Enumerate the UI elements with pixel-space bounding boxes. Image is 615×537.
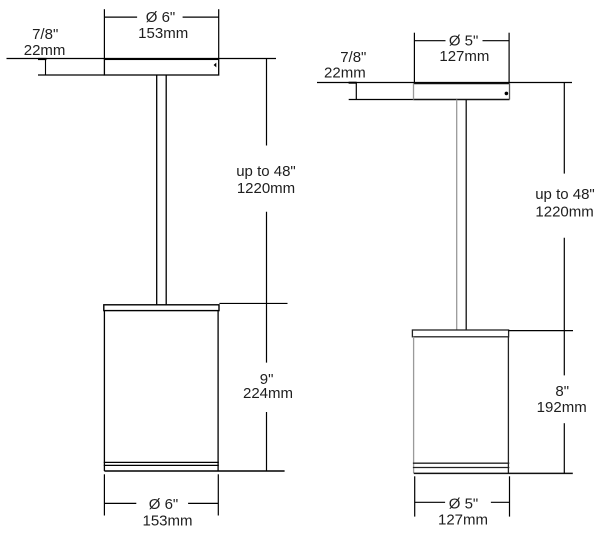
svg-text:22mm: 22mm <box>24 42 66 59</box>
svg-text:22mm: 22mm <box>324 65 366 82</box>
svg-text:7/8": 7/8" <box>32 26 58 43</box>
svg-text:127mm: 127mm <box>439 48 489 65</box>
top dimension line seg 1 (right fixture) <box>414 40 445 42</box>
cap-top extension line (left fixture) <box>219 302 287 304</box>
48in/9in chain dimension line seg 1 (left fixture) <box>266 59 268 146</box>
svg-text:Ø 5": Ø 5" <box>449 32 479 49</box>
svg-text:224mm: 224mm <box>243 385 293 402</box>
top dimension line seg 2 (left fixture) <box>183 16 219 18</box>
svg-text:8": 8" <box>555 383 569 400</box>
canopy right edge (right) <box>509 84 511 100</box>
top dim extension line left (left fixture) <box>103 9 105 59</box>
body right edge (left fixture) <box>217 311 219 471</box>
top dimension line seg 1 (left fixture) <box>104 16 137 18</box>
top dimension line seg 2 (right fixture) <box>483 40 510 42</box>
svg-text:153mm: 153mm <box>142 513 192 530</box>
top dim extension line right (right fixture) <box>508 33 510 83</box>
canopy left edge (right, grey) <box>413 84 415 100</box>
bottom dimension line seg 2 (right fixture) <box>491 501 510 503</box>
body left edge (left fixture) <box>103 311 105 471</box>
svg-text:1220mm: 1220mm <box>237 180 295 197</box>
7/8" bottom extension line (left) <box>38 74 104 76</box>
cylinder cap (right fixture) <box>412 330 508 337</box>
svg-text:192mm: 192mm <box>537 399 587 416</box>
7/8" bottom extension line (right) <box>349 99 414 101</box>
chain dimension line seg 3 (right fixture) <box>563 423 565 473</box>
svg-text:Ø 5": Ø 5" <box>449 496 479 513</box>
svg-text:1220mm: 1220mm <box>535 204 593 221</box>
svg-text:up to 48": up to 48" <box>236 163 296 180</box>
body bottom line + right extension (right fixture) <box>414 472 573 474</box>
svg-text:153mm: 153mm <box>138 25 188 42</box>
svg-text:7/8": 7/8" <box>340 49 366 66</box>
ceiling line (left) <box>7 58 277 60</box>
top dim extension line right (left fixture) <box>218 9 220 59</box>
stem left line (left fixture) <box>156 75 158 304</box>
stem left line (right fixture, grey) <box>456 100 458 331</box>
stem right line (left fixture) <box>165 75 167 304</box>
setscrew dot inside canopy (right) <box>505 92 509 96</box>
top dim extension line left (right fixture) <box>413 33 415 83</box>
body left edge (right fixture, grey) <box>413 337 415 474</box>
bottom dimension line seg 1 (left fixture) <box>104 502 136 504</box>
7/8" tick mark (right) <box>349 82 357 84</box>
bottom dim extension line left (left fixture) <box>103 474 105 515</box>
bottom dim extension line right (left fixture) <box>217 474 219 515</box>
trim ring line 2 (right fixture) <box>413 467 509 469</box>
svg-text:Ø 6": Ø 6" <box>149 496 179 513</box>
svg-text:up to 48": up to 48" <box>535 186 595 203</box>
chain dimension line seg 3 (left fixture) <box>266 412 268 471</box>
canopy bottom line (right) <box>414 99 510 101</box>
bottom dimension line seg 1 (right fixture) <box>415 501 445 503</box>
bottom dim extension line left (right fixture) <box>414 476 416 516</box>
body right edge (right fixture) <box>507 337 509 474</box>
cap-top extension line (right fixture) <box>508 330 573 332</box>
body bottom line + right extension (left fixture) <box>104 470 284 472</box>
7/8" dimension line (right, vertical) <box>355 83 357 100</box>
cylinder cap (left fixture) <box>104 305 219 311</box>
trim ring line 1 (right fixture) <box>413 462 509 464</box>
bottom dimension line seg 2 (left fixture) <box>188 502 218 504</box>
svg-text:Ø 6": Ø 6" <box>146 9 176 26</box>
chain dimension line seg 2 (left fixture) <box>266 212 268 363</box>
setscrew mark inside canopy (left) <box>214 63 217 68</box>
trim ring line 2 (left fixture) <box>104 464 219 466</box>
7/8" tick mark (left, top of dim line) <box>38 58 47 60</box>
7/8" dimension line (left, vertical) <box>45 59 47 76</box>
stem right line (right fixture) <box>465 100 467 331</box>
48in/8in chain dimension line seg 1 (right fixture) <box>563 83 565 174</box>
svg-text:127mm: 127mm <box>438 512 488 529</box>
bottom dim extension line right (right fixture) <box>509 476 511 516</box>
ceiling line (right) <box>317 82 572 84</box>
chain dimension line seg 2 (right fixture) <box>563 238 565 376</box>
canopy top line (right) <box>414 83 510 85</box>
canopy (left) <box>104 59 218 75</box>
trim ring line 1 (left fixture) <box>104 461 219 463</box>
